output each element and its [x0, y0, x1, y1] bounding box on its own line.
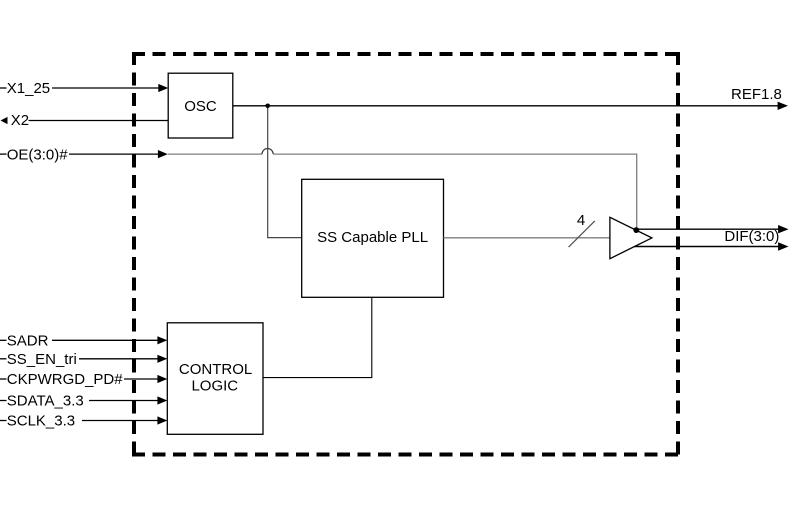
wire OE(3:0)# stub — [0, 153, 7, 155]
arrowhead OE(3:0)# into chip — [158, 150, 168, 158]
svg-text:OSC: OSC — [184, 98, 217, 115]
wire DIF bus top line — [636, 228, 779, 230]
box SS Capable PLL — [302, 179, 444, 297]
wire SCLK_3.3 stub — [0, 420, 7, 422]
box OSC — [168, 73, 233, 138]
arrowhead SDATA_3.3 — [157, 396, 167, 404]
wire SS_EN_tri stub — [0, 358, 7, 360]
wire X1_25 stub — [0, 87, 7, 89]
arrowhead DIF bus bottom — [778, 242, 788, 250]
svg-text:X2: X2 — [11, 112, 29, 129]
svg-text:4: 4 — [577, 212, 585, 229]
wire X1_25 to OSC — [52, 87, 160, 89]
arrowhead X2 output (points left) — [1, 117, 8, 124]
wire SDATA_3.3 stub — [0, 400, 7, 402]
wire SADR stub — [0, 339, 7, 341]
wire CKPWRGD_PD# stub — [0, 378, 7, 380]
wire CKPWRGD_PD# to CONTROL LOGIC — [124, 378, 159, 380]
wire REF output from OSC — [233, 105, 780, 107]
wire SS_EN_tri to CONTROL LOGIC — [79, 358, 159, 360]
svg-text:REF1.8: REF1.8 — [731, 86, 782, 103]
wire PLL output to buffer — [444, 237, 610, 239]
junction dot on REF wire — [265, 104, 270, 109]
output buffer (tri-state driver) — [610, 217, 652, 258]
svg-text:CONTROL: CONTROL — [179, 361, 252, 378]
chip boundary dashed top border — [132, 52, 680, 56]
arrowhead X1_25 into OSC — [158, 84, 168, 92]
arrowhead SS_EN_tri — [157, 355, 167, 363]
chip boundary dashed left border — [132, 52, 136, 457]
svg-text:OE(3:0)#: OE(3:0)# — [7, 146, 69, 163]
wire OE gray run with hop over OSC-PLL wire, to output buffer enable — [168, 153, 262, 155]
wire OE gray run to output buffer enable — [273, 154, 637, 229]
svg-text:SS_EN_tri: SS_EN_tri — [7, 351, 77, 368]
wire X2 to OSC — [29, 120, 169, 122]
arrowhead SADR — [157, 336, 167, 344]
junction dot at buffer output / OE — [633, 227, 639, 233]
box CONTROL LOGIC — [167, 323, 263, 435]
arrowhead SCLK_3.3 — [157, 416, 167, 424]
svg-text:DIF(3:0): DIF(3:0) — [724, 228, 779, 245]
wire DIF bus bottom line — [635, 246, 780, 248]
wire SADR to CONTROL LOGIC — [52, 339, 159, 341]
arrowhead REF1.8 output — [778, 102, 788, 110]
svg-text:CKPWRGD_PD#: CKPWRGD_PD# — [7, 371, 124, 388]
bus width slash — [569, 221, 595, 247]
wire SDATA_3.3 to CONTROL LOGIC — [89, 400, 159, 402]
svg-text:SS Capable PLL: SS Capable PLL — [317, 229, 428, 246]
svg-text:LOGIC: LOGIC — [191, 377, 238, 394]
svg-text:X1_25: X1_25 — [7, 80, 50, 97]
chip boundary dashed right border — [676, 52, 680, 457]
svg-text:SDATA_3.3: SDATA_3.3 — [7, 393, 84, 410]
wire CONTROL LOGIC to PLL — [263, 297, 372, 377]
svg-text:SADR: SADR — [7, 333, 49, 350]
chip boundary dashed bottom border — [132, 453, 680, 457]
arrowhead CKPWRGD_PD# — [157, 375, 167, 383]
arrowhead DIF bus top — [778, 225, 788, 233]
wire OSC output down to PLL input — [268, 106, 302, 238]
wire OE(3:0)# black segment — [69, 153, 159, 155]
wire SCLK_3.3 to CONTROL LOGIC — [82, 420, 159, 422]
wire hop arc (OE over OSC-PLL wire) — [262, 149, 273, 155]
svg-text:SCLK_3.3: SCLK_3.3 — [7, 413, 75, 430]
